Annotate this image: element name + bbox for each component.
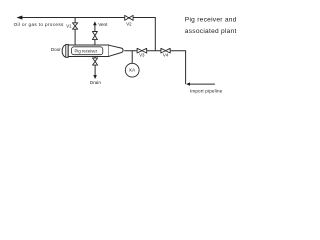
valve V3 — [137, 48, 147, 53]
svg-text:XA: XA — [129, 68, 136, 74]
wire: drain branch — [94, 57, 96, 76]
svg-text:V1: V1 — [66, 23, 72, 28]
svg-text:Import pipeline: Import pipeline — [190, 88, 223, 93]
vessel: door flange — [66, 44, 68, 57]
arrow: import pipeline (points left) — [186, 82, 190, 85]
valve V4 — [161, 48, 170, 53]
svg-text:Door: Door — [51, 47, 61, 52]
svg-text:Drain: Drain — [90, 80, 101, 85]
svg-text:Vent: Vent — [98, 22, 108, 27]
wire: V1 branch — [74, 18, 76, 46]
arrow: vent (points up) — [93, 21, 97, 25]
valve: vent valve — [92, 32, 97, 40]
wire: XA instrument stem — [131, 51, 133, 63]
svg-text:V2: V2 — [126, 22, 132, 27]
svg-text:V4: V4 — [163, 52, 169, 57]
svg-text:Oil or gas to process: Oil or gas to process — [14, 22, 64, 27]
wire: pig receiver outlet to import pipeline riser — [124, 51, 185, 84]
wire: vent branch — [94, 25, 96, 45]
arrow: to process (points left) — [17, 16, 23, 20]
valve V2 — [125, 15, 133, 20]
vessel: pig receiver door arc — [62, 45, 65, 57]
svg-text:Pig receiver: Pig receiver — [75, 48, 98, 53]
arrow: drain (points down) — [93, 75, 97, 79]
vessel: pig receiver barrel — [68, 45, 109, 57]
wire: import pipeline stub — [189, 83, 215, 85]
svg-text:Pig receiver and: Pig receiver and — [185, 17, 237, 24]
wire: oil or gas process header — [22, 18, 156, 52]
vessel: reducer cone nose — [109, 45, 123, 56]
svg-text:associated plant: associated plant — [185, 28, 237, 35]
valve: drain valve — [93, 58, 98, 65]
instrument bubble XA — [125, 63, 139, 77]
svg-text:V3: V3 — [139, 52, 145, 57]
label box: Pig receiver — [72, 47, 103, 55]
valve V1 — [73, 23, 78, 29]
